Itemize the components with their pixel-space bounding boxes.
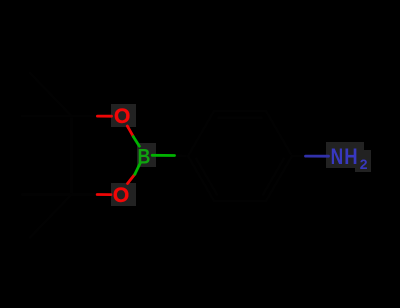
svg-text:O: O	[113, 184, 129, 207]
svg-text:O: O	[114, 105, 130, 128]
svg-text:N: N	[331, 145, 344, 169]
svg-text:2: 2	[360, 156, 368, 172]
svg-text:B: B	[137, 145, 150, 169]
svg-text:H: H	[344, 146, 357, 170]
